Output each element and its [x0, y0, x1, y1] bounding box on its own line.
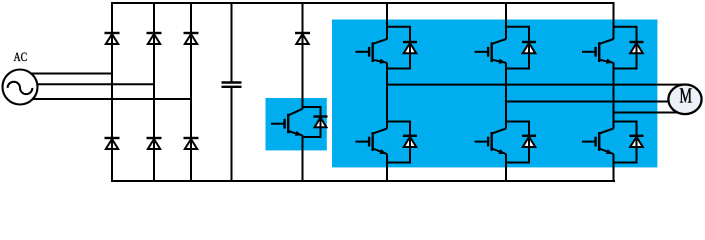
wire inverter leg 2 collector drop [505, 2, 507, 39]
wire inverter leg 3 emitter drop [613, 154, 615, 182]
wire bottom DC bus rail [111, 180, 615, 182]
wire phase output 3 [614, 112, 687, 114]
inverter highlight box [332, 20, 657, 168]
diode D3 (rectifier top) [185, 34, 197, 44]
diode D2 (rectifier top) [148, 34, 160, 44]
wire phase output 1 [387, 84, 686, 86]
transistor V3 (top IGBT) [582, 51, 596, 53]
diode VD5 (bottom antiparallel) [523, 137, 536, 147]
wire rectifier leg 1 [111, 2, 113, 182]
transistor V6 (bottom IGBT) [582, 141, 596, 143]
transistor V4 (bottom IGBT) [356, 141, 370, 143]
wire AC phase line 1 [20, 73, 112, 75]
transistor V7 (brake IGBT) [271, 123, 285, 125]
wire inverter leg 1 collector drop [386, 2, 388, 39]
diode VD4 (bottom antiparallel) [404, 137, 417, 147]
wire inverter leg 1 emitter drop [386, 154, 388, 182]
transistor V1 (top IGBT) [356, 51, 370, 53]
wire inverter leg 2 midsection [505, 63, 507, 129]
diode D5 (rectifier bottom) [148, 139, 160, 149]
wire diode branch bottom cell leg 3 [614, 122, 637, 136]
wire rectifier leg 2 [153, 2, 155, 182]
diode D4 (rectifier bottom) [106, 139, 118, 149]
wire top DC bus rail [111, 2, 615, 4]
capacitor C1 [231, 2, 233, 83]
diode D8 (brake freewheel) [315, 118, 327, 128]
label AC [14, 53, 21, 61]
brake chopper highlight box [266, 98, 327, 150]
wire phase output 2 [506, 101, 686, 103]
diode VD3 (top antiparallel) [630, 43, 643, 53]
wire inverter leg 3 collector drop [613, 2, 615, 39]
transistor V2 (top IGBT) [475, 51, 489, 53]
wire diode branch bottom cell leg 1 [387, 122, 410, 136]
diode D7 (brake) [296, 34, 308, 44]
wire brake diode branch [303, 107, 321, 116]
motor M [668, 85, 701, 115]
wire inverter leg 3 midsection [613, 63, 615, 129]
wire AC phase line 2 [20, 83, 154, 85]
wire rectifier leg 3 [190, 2, 192, 182]
transistor V5 (bottom IGBT) [475, 141, 489, 143]
diode VD2 (top antiparallel) [523, 43, 536, 53]
diode VD6 (bottom antiparallel) [630, 137, 643, 147]
diode VD1 (top antiparallel) [404, 43, 417, 53]
wire inverter leg 1 midsection [386, 63, 388, 129]
wire diode branch top cell leg 2 [506, 27, 529, 41]
wire diode branch top cell leg 3 [614, 27, 637, 41]
wire brake branch upper [302, 2, 304, 109]
diode D6 (rectifier bottom) [185, 139, 197, 149]
wire brake branch lower [302, 135, 304, 182]
wire inverter leg 2 emitter drop [505, 154, 507, 182]
wire diode branch top cell leg 1 [387, 27, 410, 41]
AC source circle [3, 70, 38, 105]
diode D1 (rectifier top) [106, 34, 118, 44]
wire diode branch bottom cell leg 2 [506, 122, 529, 136]
wire AC phase line 3 [20, 98, 191, 100]
